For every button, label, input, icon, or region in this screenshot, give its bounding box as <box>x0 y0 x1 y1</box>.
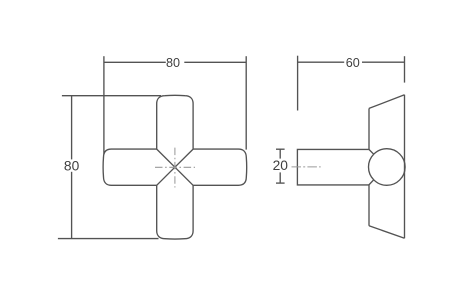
side view arm plate left edge lower segment <box>368 185 370 226</box>
dimension 60: dimension line right segment <box>362 61 405 63</box>
svg-text:80: 80 <box>166 56 180 70</box>
dimension 80 left: top extension line <box>62 95 161 97</box>
front view horizontal centerline <box>155 166 195 168</box>
side view arm plate right edge <box>404 95 406 238</box>
side view fillet diagonal lower <box>369 180 374 185</box>
fillet diagonal top-right to center <box>175 149 193 167</box>
dimension 80 top: right extension line <box>245 56 247 149</box>
dimension 60: dimension line left segment <box>298 61 345 63</box>
side view hub circle <box>369 149 406 186</box>
front view vertical centerline <box>174 148 176 188</box>
side view stem rectangle <box>297 149 369 185</box>
side view arm plate bottom edge <box>369 226 405 238</box>
fillet diagonal bottom-right to center <box>175 167 193 185</box>
side view arm plate (trapezoid) top edge <box>369 95 405 109</box>
dimension 80 left: dimension line upper segment <box>71 96 73 160</box>
fillet diagonal top-left to center <box>157 149 175 167</box>
fillet diagonal bottom-left to center <box>157 167 175 185</box>
dimension 20: dimension line lower segment <box>279 172 281 183</box>
dimension 20: bottom tick <box>276 182 285 184</box>
side view fillet diagonal upper <box>369 149 374 154</box>
side view arm plate left edge upper segment <box>368 108 370 149</box>
svg-text:80: 80 <box>64 158 80 173</box>
svg-text:20: 20 <box>273 158 289 173</box>
dimension 80 top: dimension line right segment <box>184 61 246 63</box>
dimension 20: top tick <box>276 148 285 150</box>
dimension 80 top: left extension line <box>103 56 105 154</box>
front view cross knob outline <box>103 95 247 239</box>
side view horizontal centerline <box>292 166 321 168</box>
dimension 80 left: dimension line lower segment <box>71 172 73 239</box>
svg-text:60: 60 <box>346 56 360 70</box>
dimension 20: dimension line upper segment <box>279 149 281 158</box>
dimension 60: left extension line <box>297 56 299 111</box>
dimension 80 top: dimension line left segment <box>104 61 166 63</box>
dimension 60: right extension line <box>404 56 406 82</box>
dimension 80 left: bottom extension line <box>58 238 159 240</box>
